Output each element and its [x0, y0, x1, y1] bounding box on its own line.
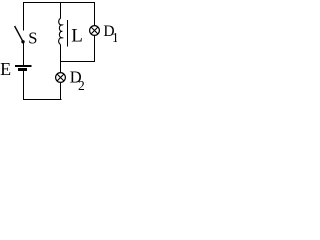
wire: lamp D2 to bottom wire	[60, 83, 62, 100]
lamp D1 circle	[90, 26, 100, 36]
switch S blade	[15, 26, 23, 41]
wire: battery to bottom-left corner	[23, 71, 25, 100]
inductor L coil (4 arcs)	[59, 18, 63, 44]
switch S pivot dot	[21, 40, 24, 43]
battery E: short plate (negative)	[18, 68, 27, 71]
wire: top horizontal	[23, 2, 95, 4]
svg-text:S: S	[28, 29, 37, 48]
battery E: long plate (positive)	[15, 65, 32, 67]
wire: left vertical upper to switch terminal	[23, 2, 25, 31]
lamp D1 cross	[91, 27, 98, 34]
wire: coil to junction	[60, 45, 62, 63]
lamp D2 circle	[56, 73, 66, 83]
wire: junction down to lamp D2	[60, 62, 62, 74]
wire: switch to battery	[23, 43, 25, 66]
svg-text:1: 1	[112, 30, 117, 45]
svg-text:2: 2	[78, 78, 85, 93]
wire: right vertical upper	[94, 2, 96, 26]
wire: middle branch top stub	[60, 2, 62, 19]
lamp D2 cross	[57, 74, 64, 81]
inductor core line	[67, 20, 69, 47]
wire: bottom horizontal	[23, 98, 61, 100]
svg-text:E: E	[0, 59, 11, 79]
wire: parallel connector horizontal	[60, 61, 95, 63]
wire: right vertical lower	[94, 35, 96, 62]
svg-text:L: L	[71, 26, 83, 47]
